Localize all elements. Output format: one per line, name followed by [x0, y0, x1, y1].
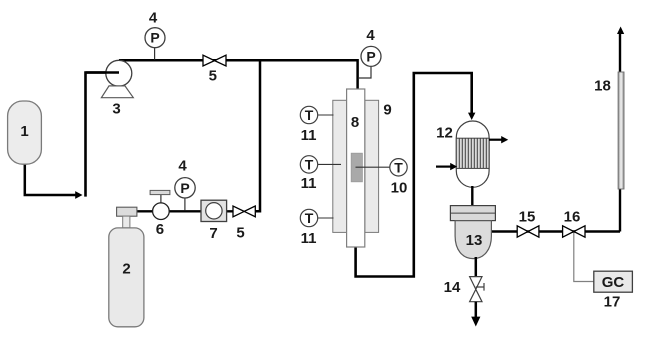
- thermocouple stem T11 bottom: [317, 217, 333, 219]
- heater block left 9: [333, 100, 347, 232]
- arrow coolant inlet: [450, 163, 457, 170]
- pressure gauge P4 at reactor: [361, 46, 381, 66]
- svg-text:T: T: [394, 159, 403, 175]
- svg-text:16: 16: [564, 209, 581, 226]
- heater block right 9: [365, 100, 379, 232]
- svg-text:T: T: [305, 210, 314, 226]
- valve 15: [517, 226, 539, 237]
- svg-text:5: 5: [236, 225, 244, 242]
- thermocouple T11 bottom: [300, 209, 317, 226]
- svg-text:12: 12: [436, 125, 453, 142]
- thermocouple stem T11 top: [317, 114, 333, 116]
- wire riser to pump 3: [86, 73, 120, 197]
- pressure gauge stem (P4 on pump line): [154, 48, 156, 60]
- svg-text:P: P: [150, 30, 159, 46]
- condenser 12 shell: [456, 121, 489, 187]
- packed column 18: [618, 72, 624, 189]
- vessel 1: [8, 101, 42, 164]
- arrow vent top: [617, 27, 624, 35]
- wire reactor bottom to condenser top: [356, 73, 472, 277]
- svg-text:18: 18: [594, 78, 611, 95]
- pressure gauge P4 on pump line: [145, 28, 165, 48]
- svg-text:17: 17: [604, 294, 621, 311]
- svg-text:5: 5: [209, 68, 217, 85]
- wire separator to vent line: [490, 230, 620, 232]
- wire condenser to separator 13: [471, 186, 473, 207]
- thermocouple T11 top: [300, 106, 317, 123]
- catalyst bed: [351, 153, 362, 182]
- thermocouple stem T11 middle: [317, 163, 341, 165]
- arrow drain: [471, 317, 480, 327]
- svg-text:15: 15: [519, 209, 536, 226]
- wire cylinder branch line: [137, 210, 236, 212]
- valve 6 with handle: [150, 190, 170, 219]
- svg-text:4: 4: [149, 10, 158, 27]
- pressure gauge stem (P4 at reactor): [359, 67, 371, 78]
- separator 13: [450, 206, 495, 259]
- thermocouple stem T10: [356, 166, 391, 168]
- svg-text:14: 14: [444, 279, 461, 296]
- svg-text:6: 6: [156, 221, 164, 238]
- valve 5 on pump line: [203, 55, 226, 66]
- svg-text:2: 2: [122, 261, 130, 278]
- wire from vessel 1 to feed line junction: [25, 162, 77, 195]
- wire coolant inlet: [436, 166, 451, 168]
- svg-text:4: 4: [366, 27, 375, 44]
- reactor column 8: [347, 89, 365, 247]
- valve 5 on cylinder line: [233, 206, 255, 217]
- svg-text:10: 10: [391, 180, 408, 197]
- wire sample line to GC: [574, 233, 594, 282]
- svg-text:1: 1: [20, 123, 28, 140]
- pressure gauge P4 on cylinder line: [175, 178, 195, 198]
- svg-text:P: P: [366, 48, 375, 64]
- arrow into feed riser: [75, 191, 82, 199]
- gas cylinder 2: [109, 207, 144, 327]
- svg-text:8: 8: [351, 114, 359, 131]
- svg-text:9: 9: [383, 102, 391, 119]
- svg-text:7: 7: [209, 225, 217, 242]
- arrow into condenser: [468, 113, 475, 120]
- svg-text:11: 11: [301, 230, 317, 247]
- svg-text:11: 11: [301, 175, 317, 192]
- svg-text:T: T: [305, 107, 314, 123]
- mass flow controller 7: [201, 200, 227, 221]
- thermocouple T10: [390, 159, 407, 176]
- pump U3: [86, 60, 134, 97]
- thermocouple T11 middle: [300, 156, 317, 173]
- svg-text:11: 11: [301, 127, 317, 144]
- wire drain outlet: [475, 302, 478, 318]
- svg-text:4: 4: [178, 158, 187, 175]
- wire separator bottom to drain valve: [475, 257, 478, 276]
- svg-text:13: 13: [466, 232, 483, 249]
- arrow coolant outlet: [501, 136, 508, 143]
- drain valve 14: [470, 277, 484, 302]
- pressure gauge stem (P4 on cylinder line): [184, 198, 186, 211]
- wire vent riser: [619, 34, 621, 232]
- wire coolant outlet: [489, 139, 502, 141]
- svg-text:P: P: [180, 180, 189, 196]
- GC analyzer 17: [594, 271, 633, 292]
- svg-text:3: 3: [112, 101, 120, 118]
- svg-text:GC: GC: [602, 274, 625, 291]
- svg-text:T: T: [305, 156, 314, 172]
- wire merge branch riser: [254, 60, 260, 211]
- wire pump discharge main line to reactor top: [119, 60, 358, 90]
- condenser tube bundle: [456, 138, 489, 168]
- valve 16: [563, 226, 585, 237]
